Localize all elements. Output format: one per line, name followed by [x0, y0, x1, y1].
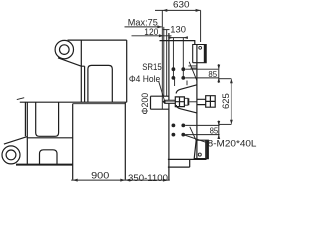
right view: tie-bar hole low-left	[172, 124, 176, 128]
right view: top bracket ledge lines	[188, 66, 197, 68]
dimension 900 right arrow	[120, 179, 125, 182]
dimension 625 jog bottom	[219, 123, 232, 125]
svg-text:120: 120	[144, 27, 158, 37]
right view: nozzle adapter	[184, 98, 188, 105]
left view: middle U-window	[36, 102, 59, 136]
left view: head front step line	[81, 66, 84, 102]
left view: lower hinge lug outer circle	[2, 146, 20, 164]
left view: base bottom edge	[16, 164, 73, 166]
dimension 350-1100 left arrow	[125, 179, 130, 182]
right view: platen top edge with step	[160, 41, 195, 45]
leader line of 8-M20*40L	[185, 135, 208, 143]
svg-text:630: 630	[173, 0, 190, 10]
svg-text:900: 900	[91, 170, 109, 180]
right view: tie-bar hole low-right	[181, 124, 185, 128]
dimension 85 bottom arrows	[217, 121, 220, 139]
dimension 120 line	[132, 35, 172, 37]
right view: bottom gusset diagonal	[190, 127, 196, 141]
dimension 85 bottom line	[218, 121, 220, 140]
right view: nozzle bell lower curve	[176, 105, 197, 113]
dimension 625 jog top	[219, 78, 232, 80]
right view: top mounting bracket	[193, 45, 207, 63]
right view: platen inner face line	[166, 30, 168, 97]
right view: base plate lower step	[168, 159, 190, 167]
right view: base plate top line	[168, 158, 207, 160]
right view: top bracket bolt hole	[199, 46, 202, 49]
right view: tie-bar hole top-left	[172, 67, 176, 71]
dimension 85 top arrows	[217, 65, 220, 83]
right view: nozzle center line	[189, 101, 197, 103]
svg-text:85: 85	[210, 127, 219, 136]
dimension 130 line	[168, 37, 186, 39]
right view: bottom bracket bolt hole	[198, 153, 201, 156]
left view: upper hinge lug outer circle	[55, 40, 73, 58]
dimension 85 bottom leader lines	[185, 125, 219, 134]
svg-text:Φ4 Hole: Φ4 Hole	[129, 74, 160, 84]
right view: locating ring cylinder	[151, 96, 170, 109]
left view: foot window rounded bump	[40, 150, 58, 165]
right view: adapter collar dark edge	[188, 98, 190, 105]
right view: tie-bar hole top-right	[181, 67, 185, 71]
right view: bottom mounting bracket	[194, 140, 208, 158]
dimension 625 line	[230, 79, 232, 125]
svg-text:350-1100: 350-1100	[128, 173, 168, 183]
dimension Max:75 arrow	[157, 25, 162, 28]
left view: horizontal division line	[20, 101, 127, 103]
svg-text:85: 85	[208, 70, 217, 79]
right view: nozzle bell upper curve	[176, 85, 197, 94]
right view: nozzle retaining nut	[175, 97, 184, 107]
dimension 900 left arrow	[73, 179, 78, 182]
left view: head front vertical edge	[80, 40, 82, 102]
right view: platen left edge	[168, 33, 170, 180]
right view: tie-bar hole mid-right	[181, 76, 185, 80]
dimension 350-1100 right arrow	[163, 179, 168, 182]
left view: head top edge	[68, 39, 127, 41]
leader line of Φ4 Hole	[159, 81, 165, 101]
dimension 630 line	[155, 10, 201, 42]
svg-text:625: 625	[221, 93, 231, 109]
svg-text:Φ200: Φ200	[140, 93, 150, 115]
dimension 85 top line	[218, 64, 220, 83]
left view: break tick at division line left end	[17, 98, 24, 100]
dimension 900 and 350-1100 baseline	[71, 179, 170, 181]
dimension Max:75 line	[125, 26, 162, 28]
right view: nozzle tip filled	[163, 100, 176, 104]
right view: tie-bar hole mid-left	[172, 76, 176, 80]
dimension 85 top leader lines	[185, 69, 218, 78]
dimension 625 arrows	[230, 79, 233, 125]
right view: hole column extension lines	[173, 38, 183, 78]
left view: column left edge	[72, 104, 74, 180]
right view: tie-bar hole bottom-right	[181, 133, 185, 137]
right view: tie-bar hole bottom-left	[172, 133, 176, 137]
dimension 130 arrows	[169, 36, 188, 39]
right view: top gusset diagonal	[189, 62, 197, 82]
svg-text:130: 130	[170, 24, 186, 34]
left view: lower lug tangent arm edge	[4, 137, 27, 145]
right view: rear stud shaft	[197, 99, 206, 104]
left view: column top second line	[73, 103, 126, 105]
dimension 630 arrows	[162, 9, 200, 12]
left view: middle arm front verticals	[25, 102, 72, 164]
left view: lower hinge lug inner hole	[6, 150, 16, 160]
svg-text:Max:75: Max:75	[128, 17, 158, 27]
left view: head window rounded opening	[88, 65, 112, 102]
left view: upper hinge lug inner hole	[60, 45, 70, 55]
right view: sprue bushing edge stubs	[175, 79, 187, 86]
right view: rear stud nut	[206, 96, 216, 108]
right view: platen right edge	[196, 45, 198, 160]
dimension 120 arrow	[159, 34, 164, 37]
left view: right outer edge of head and column	[125, 40, 126, 179]
svg-text:8-M20*40L: 8-M20*40L	[208, 139, 257, 149]
svg-text:SR15: SR15	[142, 62, 162, 72]
right view: platen front face double lines	[162, 10, 164, 109]
left view: upper lug tangent arm edge	[58, 58, 81, 66]
dimension Max:75 second segment	[163, 29, 170, 31]
